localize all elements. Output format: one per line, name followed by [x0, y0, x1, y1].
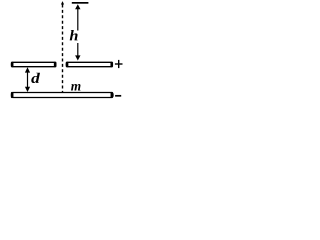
node axis arrowhead — [61, 1, 64, 4]
label d — [31, 73, 40, 83]
node top reference bar — [72, 2, 89, 4]
capacitor lower plate — [11, 92, 113, 98]
capacitor upper plate left segment — [11, 62, 57, 68]
capacitor upper plate right segment — [66, 62, 113, 68]
wire h-arrow lower segment — [77, 43, 79, 57]
label h — [70, 30, 78, 40]
node h-arrow bottom arrowhead — [75, 55, 80, 60]
label plus sign — [115, 60, 123, 68]
node d-arrow top arrowhead — [25, 67, 30, 72]
wire dashed axis line — [62, 5, 64, 93]
node d-arrow bottom arrowhead — [25, 87, 30, 92]
background — [0, 0, 132, 103]
label m — [71, 84, 81, 91]
label minus sign — [115, 95, 121, 97]
wire d-arrow — [27, 70, 29, 89]
wire h-arrow upper segment — [77, 8, 79, 31]
node h-arrow top arrowhead — [75, 4, 80, 9]
